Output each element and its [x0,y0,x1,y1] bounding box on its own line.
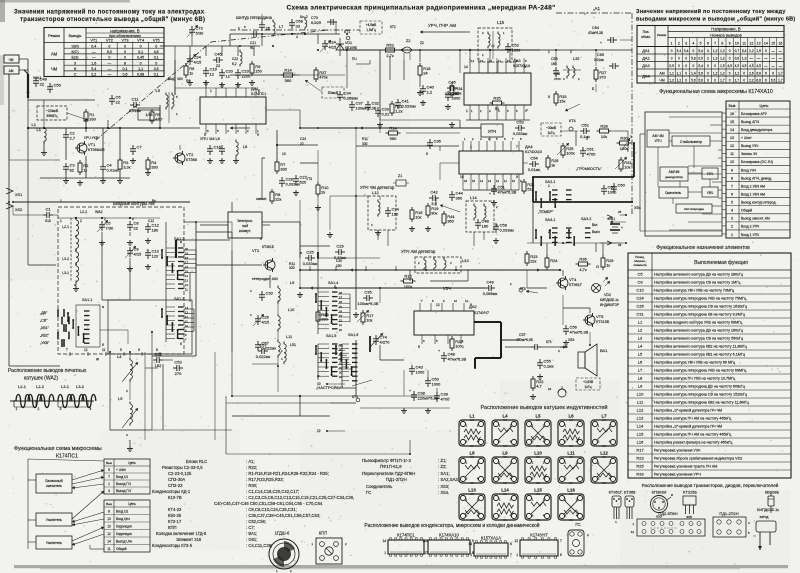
svg-text:Настройка контура ПЧ АМ на час: Настройка контура ПЧ АМ на частоту 465кГ… [654,417,732,421]
svg-text:К174ХА10: К174ХА10 [525,150,542,154]
more grounds [317,205,319,208]
svg-text:а: а [300,251,302,255]
svg-text:12: 12 [730,144,734,148]
svg-text:4/15: 4/15 [194,60,203,65]
wires right stage [527,242,620,244]
capacitor C55 [539,359,541,363]
wire UPCh bus [300,127,481,129]
svg-text:0,1: 0,1 [138,50,143,54]
svg-text:ИНДИКАТОР: ИНДИКАТОР [600,303,619,307]
far-left connector blocks [4,55,19,63]
svg-text:L14: L14 [470,195,477,200]
svg-text:„УКВ": „УКВ" [40,341,50,345]
svg-text:14: 14 [471,59,475,63]
svg-text:L2-1: L2-1 [62,225,69,229]
block UZCh [702,168,718,179]
svg-text:R36: R36 [579,256,587,261]
svg-text:7: 7 [526,109,528,113]
trimmer capacitor C24 [324,40,326,44]
svg-text:: R30;: : R30; [246,483,257,488]
svg-text:330: 330 [151,165,158,170]
svg-text:33: 33 [296,24,301,29]
svg-text:К174ХА10: К174ХА10 [439,533,459,538]
svg-text:11: 11 [504,179,507,183]
svg-text:SA1.6: SA1.6 [348,333,358,337]
svg-text:3300: 3300 [452,96,462,101]
svg-text:8: 8 [510,542,512,546]
svg-text:14: 14 [382,539,386,543]
svg-text:УПЧ ЧМ L8: УПЧ ЧМ L8 [200,137,220,141]
svg-text:Выкл: Выкл [592,230,600,234]
extra wires top middle [229,34,231,46]
wire heterodyne strip [230,33,340,35]
svg-text:L1: L1 [638,320,643,325]
svg-text:47мк*6,3В: 47мк*6,3В [448,357,467,362]
bus from SA14 to C74 [317,250,319,258]
svg-text:WA2: WA2 [95,210,103,214]
svg-text:: C8,C9,C10,C24,C26,C31;: : C8,C9,C10,C24,C26,C31; [246,507,297,512]
svg-text:Вход 1 УВЧ АМ: Вход 1 УВЧ АМ [741,192,765,196]
transistor VT2 [175,153,185,163]
svg-text:SA1.1: SA1.1 [82,298,92,302]
svg-text:9: 9 [731,168,733,172]
resistor R18 [419,63,421,66]
annotation 50mkV [322,87,344,98]
svg-text:12: 12 [489,59,493,63]
svg-text:51: 51 [495,106,500,111]
thick supply bus right of DA2 [501,339,520,341]
svg-text:C5: C5 [637,272,643,277]
IC DA3 pins bottom [469,105,471,115]
svg-text:Настройка контура гетеродина С: Настройка контура гетеродина СВ на часто… [654,305,748,309]
svg-text:1: 1 [462,345,464,349]
coil L2-2 sym [75,236,77,239]
svg-text:ный: ный [242,224,248,228]
wire SA11 to bottom [100,329,128,331]
svg-text:9: 9 [472,539,474,543]
svg-text:L12: L12 [637,408,644,413]
svg-text:6,0: 6,0 [107,50,112,54]
capacitor C8 [129,221,131,225]
svg-text:330: 330 [280,167,287,172]
arrow heads on buses [230,127,250,129]
svg-text:Настройка антенного контура КВ: Настройка антенного контура КВ1 на часто… [654,353,746,357]
wire y131 right [560,130,578,132]
thick audio-power bus from DA2 [474,321,501,323]
svg-text:а: а [180,240,182,244]
svg-text:АМ гетеродин: АМ гетеродин [684,207,704,211]
resistor R25 [562,143,564,146]
svg-text:Выход смесит. АМ: Выход смесит. АМ [741,217,770,221]
svg-text:13: 13 [488,179,492,183]
svg-text:GB1: GB1 [608,217,615,221]
svg-text:11: 11 [498,59,501,63]
svg-text:4700: 4700 [587,152,597,157]
svg-text:22к: 22к [530,259,536,264]
resistor R26 [547,155,549,158]
svg-text:0,01мк: 0,01мк [107,168,120,173]
svg-text:Настройка контура УВЧ УКВ на ч: Настройка контура УВЧ УКВ на частоту 73М… [654,289,735,293]
table T2 microcircuit voltages [637,26,784,84]
antenna WA1 rod [27,74,29,98]
svg-text:L5: L5 [118,396,123,401]
svg-text:L8: L8 [638,376,643,381]
svg-text:4: 4 [731,209,733,213]
svg-text:L3-1: L3-1 [62,271,69,275]
resistor R37 [315,67,317,70]
wire long bottom bus [226,402,330,404]
transistor package KP303I [651,496,668,513]
L12 dashed box [368,196,396,230]
svg-text:С58: С58 [554,72,560,76]
svg-text:С36: С36 [434,139,442,144]
svg-text:VT2: VT2 [186,152,194,157]
resistor R14b [281,74,284,76]
resistor R34 [451,83,453,86]
svg-text:R28: R28 [600,123,608,128]
svg-text:L10: L10 [288,308,294,312]
svg-text:Б(З): Б(З) [72,56,79,60]
bus y148 left [9,159,60,161]
table T1 transistor voltages [44,28,164,77]
label Funkts right edge [610,221,626,223]
box around SA13 [108,300,192,354]
wires contour strip drops [189,46,191,56]
capacitor C60 [613,183,615,187]
svg-text:Настройка антенного контура СВ: Настройка антенного контура СВ на частот… [654,281,741,285]
capacitor C25 [305,257,309,259]
svg-text:Вход 2 УВЧ АМ: Вход 2 УВЧ АМ [741,184,765,188]
svg-text:С57: С57 [519,333,526,337]
svg-text:Настройка контура ПЧ АМ на час: Настройка контура ПЧ АМ на частоту 465кГ… [654,433,732,437]
svg-text:90к: 90к [431,211,437,216]
wires AM contour stubs [166,247,175,249]
svg-text:Выход АПЧ, демод.: Выход АПЧ, демод. [741,176,772,180]
svg-text:2к: 2к [321,190,325,195]
IC DA2 pins bottom [421,335,423,344]
svg-text:ДА4: ДА4 [642,74,650,79]
svg-text:Выв: Выв [729,104,736,108]
svg-text:0,022мк: 0,022мк [256,354,271,359]
grounds AM contours [101,240,103,243]
coil L51 [283,342,285,345]
svg-text:47мк*6,3В: 47мк*6,3В [588,31,603,35]
svg-text:1: 1 [470,553,472,557]
staircase wires SA12 to bus [184,249,196,251]
svg-text:100к: 100к [566,151,575,156]
svg-text:L13: L13 [462,258,469,263]
svg-text:330: 330 [321,317,328,322]
svg-text:Настройка антенного контура СВ: Настройка антенного контура СВ на частот… [654,337,744,341]
wire drop from bus to DA3 [346,50,348,88]
capacitor C35 [363,297,367,299]
svg-text:22: 22 [40,82,45,87]
svg-text:7/30: 7/30 [106,226,115,231]
svg-text:R33: R33 [636,472,644,477]
svg-text:гетеродин АМ: гетеродин АМ [252,276,278,281]
wire left edge vertical [8,160,10,366]
capacitor C44 [451,191,453,195]
IC DA2 K174UN7 box [414,311,474,335]
wire DA4 to AM det [440,162,459,164]
resistor R24 [546,255,548,258]
svg-text:R23: R23 [636,456,644,461]
block AM heterodyne [676,204,712,213]
wire left lower horizontal [9,365,60,367]
svg-text:АМ ЧМ: АМ ЧМ [652,134,664,138]
vertical x356 center [355,128,357,196]
svg-text:L4: L4 [117,354,122,359]
svg-text:УВЧ: УВЧ [707,191,714,195]
resistor R22 [532,376,534,379]
svg-text:К(С): К(С) [71,50,78,54]
svg-text:6,3/25: 6,3/25 [311,21,321,25]
svg-text:Настройка „S"-кривой детектора: Настройка „S"-кривой детектора ПЧ ЧМ [654,425,722,429]
wire to speaker [505,346,531,348]
diode package KV109B [768,496,774,506]
svg-text:2: 2 [570,50,572,54]
resistor R33 [555,91,557,94]
capacitor C6 [111,95,113,99]
svg-text:0: 0 [108,44,110,48]
svg-text:L16: L16 [567,488,575,493]
svg-text:„А1: „А1 [593,6,601,11]
capacitor C52b [153,359,157,361]
electronic block box [228,212,262,238]
svg-text:Х54: Х54 [634,206,641,210]
resistor R16 [411,207,413,210]
resistor R53 [383,49,386,51]
svg-text:L3-2: L3-2 [62,257,69,261]
trimmer C24b [189,55,191,59]
resistor R8 [271,189,273,192]
svg-text:КТ3: КТ3 [352,395,358,399]
svg-text:14: 14 [730,128,734,132]
resistor R9 [251,61,253,64]
svg-text:10к: 10к [366,318,372,323]
transistor VT5 [585,315,595,325]
wire top-left strip [175,45,260,47]
capacitor C4 [102,163,104,167]
coil L2-1 [75,218,77,221]
svg-text:Настройка контура гетеродина У: Настройка контура гетеродина УКВ на част… [654,297,747,301]
capacitor C41 [397,99,399,103]
svg-text:180: 180 [152,228,159,233]
svg-text:12: 12 [436,303,440,307]
svg-text:4: 4 [132,217,134,221]
svg-text:Функциональная схема микросхем: Функциональная схема микросхемы К174ХА10 [659,89,773,95]
thick bus right mid [533,176,634,178]
annotation box ~20mkV 69MHz [37,106,67,120]
capacitor C1 [43,214,47,216]
pin table K174PS1 upper [104,459,150,494]
block UVCh [702,187,718,197]
svg-text:11: 11 [730,152,734,156]
svg-text:L35: L35 [573,57,579,61]
svg-text:Настройка контура гетеродина К: Настройка контура гетеродина КВ2 на част… [654,401,750,405]
svg-text:L11: L11 [286,335,292,339]
svg-text:0,45: 0,45 [137,56,144,60]
wires DA3 bottom to rail [469,115,471,120]
coil L5 transformer top-left [165,93,167,96]
svg-text:L12: L12 [372,190,379,195]
svg-text:VT4: VT4 [137,39,144,43]
GS package [568,530,584,556]
IC DA4 K174XA10 box [459,151,523,174]
thick tuning wire SA12 [175,240,177,258]
svg-text:Вх: Вх [152,199,156,203]
svg-text:0,068мк: 0,068мк [483,291,498,296]
svg-text:К157ХА1А: К157ХА1А [481,536,501,541]
svg-text:1: 1 [60,219,62,223]
svg-text:С50: С50 [54,83,62,88]
transistor package KT361G [612,496,621,507]
wire L15 to DA3 [487,62,489,73]
svg-text:270: 270 [175,371,182,376]
svg-text:: А1;: : А1; [246,459,255,464]
svg-text:330: 330 [362,142,368,146]
svg-text:VD1: VD1 [345,41,352,45]
svg-text:КТ5: КТ5 [520,287,526,291]
svg-text:Схема электрическая принципи: Схема электрическая принципиальная радио… [286,5,555,12]
wires VT3 region [276,130,278,159]
jack XS2 [6,203,13,209]
svg-text:Выход контур.гетерод.: Выход контур.гетерод. [741,201,776,205]
capacitor C37 [351,101,353,105]
svg-text:„КВ2": „КВ2" [40,334,50,338]
dash bus x632 tail [631,210,633,214]
block AM/FM demodulator [660,167,688,181]
svg-text:Настройка „S"-кривой детектора: Настройка „S"-кривой детектора ПЧ ЧМ [654,409,722,413]
tuning cap C74 [375,335,377,339]
pin table K174PS1 lower [104,500,150,552]
svg-text:0,033мк: 0,033мк [513,131,528,136]
svg-text:1: 1 [470,145,472,149]
coil L1 [43,126,45,129]
svg-text:С29: С29 [336,244,344,249]
svg-text:Входные контуры АМ: Входные контуры АМ [113,201,155,206]
label UPCh [481,124,503,137]
svg-text:12: 12 [84,348,88,352]
L13 dashed box [415,257,461,273]
svg-text:Настройка входного контура УКВ: Настройка входного контура УКВ на частот… [654,321,743,325]
wires VT1 stage extra [43,142,45,150]
svg-text:2200: 2200 [242,74,252,79]
svg-text:АМ: АМ [9,69,14,73]
svg-text:4: 4 [296,35,298,39]
svg-text:6: 6 [731,192,733,196]
svg-text:Регулировка усиления УЗЧ: Регулировка усиления УЗЧ [654,449,701,453]
svg-text:180: 180 [482,224,489,229]
wire DA3 pins top leads [469,58,471,63]
svg-text:С45: С45 [214,52,222,57]
svg-text:контур гетеродина: контур гетеродина [236,15,273,20]
svg-text:L14: L14 [501,488,509,493]
svg-text:2: 2 [38,407,40,411]
resistor R1 [85,109,87,112]
svg-text:6,2: 6,2 [232,62,237,66]
svg-text:1к: 1к [606,263,610,268]
svg-text:С42: С42 [430,190,438,195]
svg-text:К174УН7: К174УН7 [530,533,548,538]
svg-text:10к: 10к [624,165,630,170]
board A1 boundary dash-dot right [631,13,633,210]
svg-text:Настройка антенного контура ДВ: Настройка антенного контура ДВ на частот… [654,329,744,333]
wire y110 row [130,109,160,111]
junctions AM contours [75,217,77,219]
svg-text:1ГДШ-6: 1ГДШ-6 [275,531,290,536]
svg-text:С62: С62 [581,123,589,128]
svg-text:22: 22 [134,226,139,231]
svg-text:1: 1 [731,233,733,237]
svg-text:ЧМ: ЧМ [9,58,14,62]
svg-text:47мк*6,3В: 47мк*6,3В [570,330,589,335]
table T4 element functions [628,253,791,478]
svg-text:: R17,R23,R25,R33;: : R17,R23,R25,R33; [246,477,284,482]
capacitor C62 [580,130,584,132]
L14 dashed box [466,201,494,232]
svg-text:1,5кГц: 1,5кГц [366,28,376,32]
capacitor C36 [429,139,431,143]
extra grounds top middle [189,80,191,83]
svg-text:@: @ [96,357,99,361]
svg-text:Настройка антенного контура КВ: Настройка антенного контура КВ2 на часто… [654,345,748,349]
svg-text:G: G [596,264,599,269]
wire left vertical x318 [317,150,319,182]
block mixer [659,187,688,198]
svg-text:ДА4: ДА4 [525,144,533,149]
svg-text:+: + [438,349,440,353]
svg-text:демодулятор: демодулятор [665,175,683,179]
svg-text:0,4: 0,4 [91,44,96,48]
svg-text:ГС: ГС [575,522,580,527]
svg-text:5/30: 5/30 [196,31,205,36]
svg-text:C26: C26 [636,304,644,309]
svg-text:элемента: элемента [633,263,647,267]
svg-text:„ТЕМБР": „ТЕМБР" [538,210,554,214]
wire UZCh bus y288 [300,287,485,289]
annotation box +4V [360,21,382,34]
svg-text:10: 10 [317,382,321,386]
resistor R36 [576,263,579,265]
svg-text:Регулировка порога срабатывани: Регулировка порога срабатывания индикато… [654,457,742,461]
svg-text:0,1мк: 0,1мк [544,364,554,369]
svg-text:0,033мк: 0,033мк [500,228,515,233]
svg-text:8: 8 [168,77,170,81]
svg-text:б: б [180,342,182,346]
svg-text:0: 0 [671,49,673,53]
svg-text:L6: L6 [638,360,643,365]
svg-text:R25: R25 [636,464,644,469]
svg-text:: G61;: : G61; [246,537,257,542]
svg-text:транзисторов относительно вы: транзисторов относительно вывода „общий"… [20,16,205,23]
svg-text:Выход УЗЧ: Выход УЗЧ [741,144,758,148]
svg-text:22к: 22к [275,197,281,202]
svg-text:1: 1 [16,407,18,411]
svg-text:1000: 1000 [416,370,426,375]
svg-text:12: 12 [226,74,231,79]
wires SA16 contacts [342,343,349,345]
svg-text:L9: L9 [290,281,294,285]
capacitor C61 [582,147,584,151]
svg-text:смесит.: смесит. [256,197,267,201]
top-middle extra components [291,19,293,23]
svg-text:5: 5 [120,348,122,352]
svg-text:R53: R53 [386,42,394,47]
svg-text:6: 6 [426,152,428,156]
wire DA1 top feeds [175,87,256,89]
switch package PD1-2P2N [713,517,746,537]
